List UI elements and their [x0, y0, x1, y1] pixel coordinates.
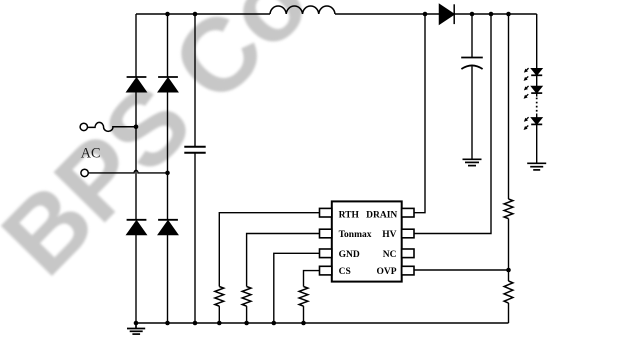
- wire bulk cap leg bottom: [194, 153, 196, 323]
- fuse F1: [88, 122, 136, 131]
- wire: [536, 75, 538, 86]
- svg-text:GND: GND: [339, 250, 360, 260]
- svg-text:Tonmax: Tonmax: [339, 230, 372, 240]
- node AC bottom: [165, 171, 170, 176]
- svg-text:RTH: RTH: [339, 210, 360, 220]
- wire bulk cap leg top: [194, 14, 196, 146]
- pin Tonmax: [320, 229, 332, 238]
- wire: [167, 92, 169, 220]
- wire divider top: [508, 14, 510, 199]
- diode D5: [440, 4, 455, 24]
- pin OVP: [402, 266, 414, 275]
- ground LED string: [527, 163, 546, 170]
- svg-text:AC: AC: [81, 145, 101, 161]
- node cap top: [470, 12, 475, 17]
- inductor L1: [270, 6, 335, 14]
- diode D4: [158, 220, 178, 235]
- node bridge top left: [165, 12, 170, 17]
- node rail 3: [193, 321, 198, 326]
- watermark: [0, 0, 332, 298]
- pin CS: [320, 266, 332, 275]
- resistor R2: [242, 287, 251, 307]
- wire divider bottom to rail: [508, 303, 510, 323]
- svg-text:HV: HV: [382, 230, 396, 240]
- resistor R4: [504, 199, 513, 219]
- ground main: [127, 323, 145, 334]
- wire inductor to diode: [335, 13, 440, 15]
- ground output cap: [463, 159, 482, 165]
- node rail 6: [272, 321, 277, 326]
- wire: [508, 219, 510, 270]
- diode D3: [127, 220, 147, 235]
- resistor R3: [299, 287, 308, 307]
- LED D8: [531, 118, 542, 125]
- wire: [135, 92, 137, 220]
- LED D8 arrows: [524, 117, 529, 130]
- ground rail: [136, 322, 509, 324]
- wire diode to LED corner: [454, 13, 537, 15]
- wire Tonmax to resistor: [247, 234, 320, 287]
- LED D7 arrows: [524, 85, 529, 98]
- node switch: [423, 12, 428, 17]
- diode D2: [158, 77, 178, 92]
- node rail 5: [244, 321, 249, 326]
- wire top rail left: [136, 13, 270, 15]
- wire: [536, 124, 538, 163]
- node divider top: [506, 12, 511, 17]
- wire: [303, 306, 305, 323]
- node rail 1: [134, 321, 139, 326]
- pin DRAIN: [402, 208, 414, 217]
- AC terminal bottom: [81, 169, 88, 176]
- node rail 7: [301, 321, 306, 326]
- LED D7: [531, 87, 542, 94]
- wire output cap leg: [471, 14, 473, 57]
- wire HV to top rail: [414, 14, 491, 234]
- wire RTH to resistor: [219, 213, 319, 287]
- wire: [135, 235, 137, 324]
- wire LED string top: [536, 14, 538, 69]
- pin HV: [402, 229, 414, 238]
- node OVP tap: [506, 268, 511, 273]
- node HV top: [489, 12, 494, 17]
- wire: [218, 306, 220, 323]
- resistor R5: [504, 281, 513, 303]
- wire OVP to divider tap: [414, 269, 509, 271]
- pin NC: [402, 249, 414, 258]
- wire: [508, 270, 510, 281]
- IC U1 body: [332, 201, 402, 281]
- svg-text:NC: NC: [383, 250, 397, 260]
- AC terminal top: [80, 123, 87, 130]
- wire CS to resistor: [304, 271, 320, 287]
- LED D6 arrows: [524, 68, 529, 81]
- svg-text:DRAIN: DRAIN: [366, 210, 397, 220]
- LED D6: [531, 69, 542, 76]
- capacitor C2: [461, 58, 483, 70]
- svg-text:OVP: OVP: [376, 267, 396, 277]
- dotted wire more LEDs: [536, 93, 538, 118]
- wire GND to ground rail: [274, 253, 320, 323]
- wire: [246, 306, 248, 323]
- node rail 2: [165, 321, 170, 326]
- diode D1: [127, 77, 147, 92]
- wire: [167, 235, 169, 324]
- capacitor C1: [184, 147, 205, 153]
- svg-text:CS: CS: [339, 267, 351, 277]
- pin RTH: [320, 208, 332, 217]
- vertical line bridge right leg: [167, 14, 169, 77]
- node rail 4: [217, 321, 222, 326]
- wire DRAIN to switch node: [414, 14, 425, 213]
- wire: [471, 66, 473, 159]
- node bridge top right: [193, 12, 198, 17]
- wire AC bottom with hop: [88, 170, 167, 173]
- resistor R1: [215, 287, 224, 307]
- pin GND: [320, 249, 332, 258]
- node AC top: [134, 125, 139, 130]
- vertical line bridge left leg: [135, 14, 137, 77]
